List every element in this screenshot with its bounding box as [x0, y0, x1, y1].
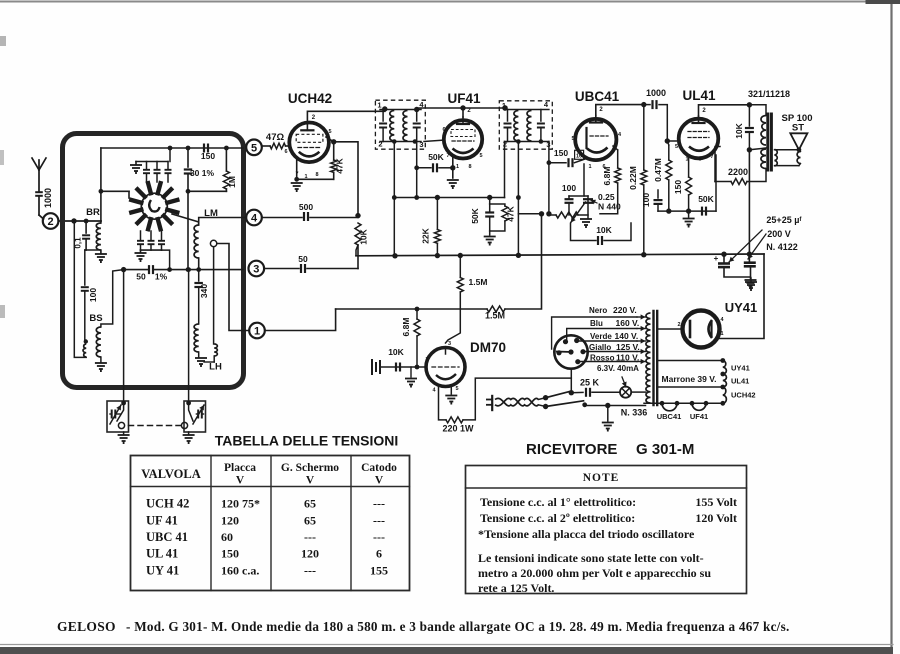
ground DM70 grid [410, 367, 412, 377]
switch lever left [118, 422, 124, 428]
IF1 trimmer left [382, 110, 384, 122]
capacitor 50K AVC ladder [487, 195, 492, 200]
svg-text:- Mod. G 301- M. Onde medie da: - Mod. G 301- M. Onde medie da 180 a 580… [126, 619, 790, 634]
table header line [131, 486, 410, 488]
wire IF2 pin2 to bus corner [504, 142, 506, 198]
svg-text:UY 41: UY 41 [146, 564, 179, 578]
svg-text:1.5M: 1.5M [485, 311, 505, 321]
ground mains [607, 406, 609, 422]
resistor 1.5M vertical [459, 256, 461, 278]
wafer switch rotor [167, 210, 177, 213]
svg-text:G. Schermo: G. Schermo [281, 462, 339, 474]
svg-text:5: 5 [328, 129, 331, 135]
filament winding UL41 [723, 374, 727, 387]
cathode line UL41 [658, 210, 716, 212]
svg-text:BR: BR [86, 207, 100, 218]
svg-text:1: 1 [377, 101, 381, 110]
svg-text:Marrone 39 V.: Marrone 39 V. [662, 374, 717, 384]
svg-text:22K: 22K [421, 227, 431, 243]
DM70 cathode ground [450, 385, 452, 394]
svg-text:GELOSO: GELOSO [57, 619, 116, 634]
wire inner top rail [101, 147, 243, 149]
svg-text:10: 10 [576, 154, 582, 160]
svg-text:UCH42: UCH42 [731, 391, 756, 400]
resistor 0.22M [641, 102, 646, 107]
resistor 2200 screen [698, 161, 700, 172]
IF2 bottom wire [505, 141, 549, 143]
DM70 grid line [381, 366, 426, 368]
svg-text:RICEVITORE: RICEVITORE [526, 441, 617, 458]
filament bottom line [644, 402, 723, 404]
svg-text:UL41: UL41 [731, 377, 749, 386]
svg-text:155: 155 [370, 564, 388, 578]
pot right end wire [578, 214, 588, 216]
svg-text:Blu: Blu [590, 319, 603, 328]
svg-text:120 Volt: 120 Volt [695, 511, 737, 525]
wire UY41 cathode to B+ [718, 254, 764, 339]
wire UCH42 anode to IF1 [307, 109, 384, 124]
svg-text:65: 65 [304, 514, 316, 528]
UBC41 pin box 10 [575, 150, 584, 159]
coil BS top wire [101, 270, 124, 327]
svg-text:0.22M: 0.22M [628, 166, 638, 190]
svg-text:6.3V. 40mA: 6.3V. 40mA [597, 364, 639, 373]
note header line [466, 487, 747, 489]
svg-text:Giallo: Giallo [589, 343, 611, 352]
svg-text:6: 6 [442, 127, 445, 133]
svg-text:5: 5 [455, 386, 458, 392]
svg-text:4: 4 [432, 388, 436, 394]
wire UCH42 triode grid [331, 139, 336, 144]
svg-text:0.47M: 0.47M [653, 158, 663, 182]
svg-text:UF41: UF41 [690, 412, 708, 421]
capacitor 50K UL41 cathode [702, 207, 706, 216]
mains switch pole 1 [538, 398, 545, 405]
svg-text:140 V.: 140 V. [615, 331, 639, 341]
capacitor 340 [198, 270, 200, 281]
svg-text:7: 7 [425, 357, 428, 363]
svg-text:V: V [306, 475, 315, 487]
svg-text:---: --- [304, 564, 316, 578]
node 3 [248, 261, 264, 277]
coil LH [194, 324, 199, 352]
main B minus bus [356, 254, 764, 256]
coil LH link small [214, 344, 217, 356]
capacitor 0.25 N440 [587, 196, 589, 218]
svg-text:BS: BS [89, 313, 102, 324]
wire UL41 anode to output transformer [699, 105, 750, 116]
capacitor 500 [262, 217, 302, 219]
svg-text:7: 7 [704, 345, 707, 351]
svg-text:5: 5 [571, 136, 574, 142]
tube UF41 [444, 120, 482, 158]
UL41 plate bar [693, 122, 705, 124]
capacitor 10K wiper [571, 224, 597, 241]
ground below left trimmer [123, 432, 125, 434]
trimmer capacitor box right [184, 401, 206, 432]
wire node 2 into box [59, 220, 102, 222]
svg-text:160 V.: 160 V. [616, 318, 640, 328]
antenna [32, 158, 39, 191]
svg-text:7: 7 [710, 154, 713, 160]
UCH42 grid dashed box [296, 134, 323, 142]
svg-text:metro a 20.000 ohm per Volt e: metro a 20.000 ohm per Volt e apparecchi… [478, 566, 711, 580]
wire link coil riser [213, 247, 215, 344]
scan artifact: left edge marks [0, 36, 6, 46]
capacitor trio above switch [146, 162, 148, 170]
IF transformer 1 dashed box [375, 100, 425, 149]
scan artifact: top edge line [0, 1, 893, 3]
svg-text:47K: 47K [335, 157, 345, 173]
wire UF41 grid to IF1 [424, 140, 445, 142]
svg-text:Verde: Verde [590, 332, 612, 341]
resistor 6.8M UBC41 diode [617, 150, 619, 168]
wire UBC41 anode riser [596, 105, 644, 116]
svg-text:47Ω: 47Ω [266, 132, 285, 143]
wire B+ riser [748, 150, 750, 254]
node 4 [246, 210, 262, 226]
wire inner mid rail [101, 190, 129, 192]
svg-text:60: 60 [221, 530, 233, 544]
svg-text:6.8M: 6.8M [602, 167, 612, 186]
electrolytic 25+25 first [723, 254, 725, 262]
svg-text:1: 1 [456, 164, 459, 170]
wire node4 into box [199, 218, 247, 226]
svg-text:rete a 125 Volt.: rete a 125 Volt. [478, 581, 554, 595]
ground UF41 cathode [447, 180, 459, 189]
wire BR bottom [86, 250, 101, 253]
svg-text:321/11218: 321/11218 [748, 89, 790, 99]
svg-text:500: 500 [299, 202, 313, 212]
wire to DM70 anode [446, 292, 461, 343]
speaker cone [790, 133, 807, 150]
HT filament winding wires [657, 360, 723, 362]
ground top right of UY41 [750, 280, 752, 282]
UBC41 cathode arc [587, 148, 608, 153]
capacitor 10K DM70 grid [396, 363, 400, 372]
ground UCH42 cathode [291, 183, 303, 192]
IF1 primary coil [390, 111, 394, 142]
wire 10K to node3 line [357, 245, 359, 269]
filament winding UBC41 [662, 403, 677, 411]
output transformer secondary [775, 150, 778, 167]
resistor 1M [225, 148, 227, 171]
terminal small circle [210, 240, 216, 246]
svg-text:Le tensioni indicate sono stat: Le tensioni indicate sono state lette co… [478, 551, 704, 565]
wire BR top riser [100, 148, 102, 221]
svg-text:Placca: Placca [224, 462, 256, 474]
svg-text:Tensione c.c. al 1° elettr: Tensione c.c. al 1° elettrolitico: [480, 495, 636, 509]
voltage selector plug [554, 335, 587, 368]
svg-text:5: 5 [251, 142, 257, 154]
resistor 220 1W [439, 385, 447, 420]
IF2 secondary coil [527, 111, 531, 142]
svg-text:UL 41: UL 41 [146, 547, 178, 561]
wire caps above switch [136, 161, 168, 163]
voltage table frame [131, 456, 410, 591]
svg-text:UCH 42: UCH 42 [146, 497, 189, 511]
svg-text:6: 6 [376, 547, 382, 561]
ground below 50K [489, 231, 491, 235]
ground UL41 cathode [688, 211, 690, 217]
electrolytic 25+25 second [748, 254, 750, 262]
IF2 top wire [505, 109, 549, 111]
pickup terminal [371, 360, 373, 374]
resistor 47K UCH42 [333, 142, 335, 160]
scan artifact: top right corner mark [868, 0, 900, 4]
svg-text:3: 3 [448, 341, 451, 347]
output transformer tap [747, 147, 752, 152]
svg-text:100: 100 [88, 288, 98, 302]
svg-text:N. 336: N. 336 [621, 408, 648, 418]
wire UF41 cathode to ground [452, 158, 454, 178]
svg-text:100: 100 [641, 193, 651, 207]
svg-text:8: 8 [468, 164, 471, 170]
svg-text:2: 2 [599, 107, 603, 113]
wire bus left end [356, 245, 358, 256]
resistor 22K [435, 195, 440, 200]
wire antenna to node 2 [38, 197, 40, 215]
selector pins [563, 339, 568, 344]
resistor 47K AVC ladder [490, 204, 505, 206]
capacitor 100 UL41 [657, 190, 659, 198]
svg-text:N. 4122: N. 4122 [766, 242, 798, 252]
svg-text:UL41: UL41 [682, 88, 716, 103]
capacitor antenna series [35, 192, 43, 196]
grid return bus [394, 197, 504, 199]
svg-text:2: 2 [702, 108, 706, 114]
capacitor 50 node3 [264, 268, 299, 270]
svg-text:340: 340 [199, 284, 209, 298]
UCH42 cathode arc [299, 152, 320, 157]
svg-text:7: 7 [446, 153, 449, 159]
svg-text:UCH42: UCH42 [288, 91, 332, 106]
tube UY41 [683, 311, 720, 348]
wire caps trio riser to rail [169, 148, 171, 162]
svg-text:155 Volt: 155 Volt [695, 495, 737, 509]
svg-text:2: 2 [467, 108, 471, 114]
note box frame [466, 466, 747, 594]
svg-text:2: 2 [677, 322, 680, 328]
wire UL41 grid [665, 138, 670, 143]
node 5 [246, 140, 262, 156]
selector center wire down [570, 368, 572, 392]
svg-text:+: + [714, 254, 719, 263]
svg-text:LH: LH [209, 362, 222, 373]
wire trimmer feed left [123, 270, 125, 402]
wire cathode to ground [297, 178, 334, 180]
svg-text:V: V [236, 475, 245, 487]
wire below switch caps [141, 249, 162, 251]
svg-text:6: 6 [284, 149, 287, 155]
wire lamp to transformer [632, 391, 645, 393]
svg-text:G 301-M: G 301-M [636, 441, 694, 458]
svg-text:8: 8 [315, 172, 318, 178]
svg-text:125 V.: 125 V. [616, 342, 640, 352]
svg-text:150: 150 [673, 180, 683, 194]
svg-text:3: 3 [253, 264, 259, 276]
svg-text:25+25 µᶠ: 25+25 µᶠ [766, 215, 802, 225]
svg-text:---: --- [373, 514, 385, 528]
svg-text:5: 5 [479, 153, 482, 159]
resistor 150 UL41 [686, 177, 692, 195]
capacitor 10K output [747, 102, 752, 107]
trimmer capacitor left [112, 410, 116, 419]
volume pot line [518, 213, 541, 215]
coil box rounded border [63, 134, 244, 388]
output transformer primary [761, 116, 766, 146]
trimmer capacitor box left [107, 401, 129, 432]
filament winding UF41 [692, 403, 706, 410]
filament winding UY41 [723, 361, 727, 375]
wire trimmer feed right [188, 270, 190, 402]
resistor 1.5M horizontal [336, 308, 487, 310]
svg-text:1: 1 [588, 164, 591, 170]
resistor 10K oscillator [355, 223, 361, 245]
svg-text:150: 150 [221, 547, 239, 561]
pot wiper arrow [571, 202, 586, 223]
svg-text:UBC 41: UBC 41 [146, 530, 188, 544]
UL41 grid dashes [688, 131, 709, 133]
svg-text:1: 1 [720, 331, 723, 337]
svg-text:---: --- [373, 497, 385, 511]
scan artifact: bottom band [0, 647, 893, 654]
table column lines [210, 456, 212, 591]
svg-text:Catodo: Catodo [361, 462, 397, 474]
filament winding UCH42 [723, 387, 727, 403]
UF41 grid dashes [451, 130, 475, 137]
ground below switch caps [140, 250, 142, 252]
svg-text:2: 2 [312, 115, 316, 121]
svg-text:UY41: UY41 [731, 364, 750, 373]
svg-text:V: V [375, 475, 384, 487]
DM70 internal dashes [432, 366, 459, 368]
UF41 cathode arc [453, 149, 474, 154]
svg-text:220 V.: 220 V. [613, 305, 637, 315]
speaker voice coil loop [775, 149, 799, 151]
ground below BR [95, 254, 107, 263]
capacitor 50K UF41 grid [417, 167, 431, 169]
svg-text:10K: 10K [359, 228, 369, 244]
capacitor trio below switch [140, 231, 142, 240]
tube UL41 [679, 119, 719, 159]
IF1 top wire [380, 109, 421, 111]
svg-text:NOTE: NOTE [583, 472, 620, 484]
volume potentiometer [556, 212, 578, 218]
svg-text:4: 4 [720, 317, 724, 323]
UY41 anode bracket [709, 320, 713, 338]
svg-text:DM70: DM70 [470, 340, 506, 355]
wire below caps to node3 line [162, 250, 170, 270]
ground below LH [198, 352, 200, 357]
wire UY41 plate to transformer [657, 328, 683, 330]
svg-text:10K: 10K [388, 347, 404, 357]
ground below right trimmer [188, 432, 190, 434]
svg-text:VALVOLA: VALVOLA [141, 467, 201, 481]
DM70 plate stub [445, 348, 447, 355]
IF1 trimmer right [416, 110, 418, 122]
svg-text:UY41: UY41 [725, 300, 758, 315]
capacitor 150 top [204, 144, 208, 153]
wire IF1 pin4 to B+ line [416, 108, 418, 110]
tube UCH42 [289, 123, 329, 163]
resistor 0.47M [667, 141, 669, 150]
wire UCH42 cathode [296, 160, 298, 179]
svg-text:30 1%: 30 1% [190, 168, 215, 178]
svg-text:50K: 50K [470, 207, 480, 223]
capacitor 25K mains [571, 391, 583, 393]
svg-text:UF 41: UF 41 [146, 514, 178, 528]
svg-text:TABELLA DELLE TENSIONI: TABELLA DELLE TENSIONI [215, 433, 399, 449]
mains plug [491, 396, 493, 410]
capacitor 30 1% [187, 148, 189, 167]
IF2 primary coil [514, 111, 518, 142]
svg-text:47K: 47K [506, 205, 516, 221]
UCH42 grid dashes [298, 147, 320, 149]
wire UF41 anode [462, 108, 464, 117]
svg-text:65: 65 [304, 497, 316, 511]
resistor 6.8M DM70 [415, 307, 420, 312]
arrows to electrolytics [729, 230, 762, 262]
DM70 cathode arc [436, 374, 456, 379]
svg-text:0.25: 0.25 [598, 192, 615, 202]
UBC41 grid leak riser [583, 164, 585, 196]
trimmer capacitor right [198, 410, 202, 419]
IF transformer 2 dashed box [499, 101, 552, 149]
svg-text:2200: 2200 [728, 167, 748, 177]
capacitor 50 1% [124, 269, 148, 271]
svg-text:200 V: 200 V [767, 229, 791, 239]
ground below BS [100, 357, 102, 362]
capacitor 1000 [644, 104, 650, 106]
svg-text:1M: 1M [227, 176, 237, 188]
svg-text:150: 150 [554, 148, 568, 158]
svg-text:120: 120 [221, 514, 239, 528]
svg-text:*Tensione alla placca del tri: *Tensione alla placca del triodo oscilla… [478, 527, 695, 541]
svg-text:100: 100 [562, 183, 576, 193]
UY41 cathode bar [689, 321, 692, 337]
svg-text:Nero: Nero [589, 306, 607, 315]
svg-text:Tensione c.c. al 2º elettr: Tensione c.c. al 2º elettrolitico: [480, 511, 635, 525]
UCH42 plate bar [301, 129, 313, 131]
svg-text:6.8M: 6.8M [401, 318, 411, 337]
wire 6.8M to pot line corner [600, 183, 618, 214]
output transformer core [766, 114, 769, 170]
wire IF1 pin3 down [416, 142, 418, 198]
line AVC node1 [265, 309, 336, 331]
capacitor 100 left [84, 250, 86, 285]
arrow 6.3V to lamp [622, 377, 626, 387]
ground above switch caps [135, 162, 137, 165]
svg-text:UBC41: UBC41 [575, 89, 620, 104]
svg-text:UBC41: UBC41 [657, 412, 682, 421]
UL41 screen wire [714, 147, 716, 182]
svg-text:---: --- [304, 530, 316, 544]
svg-text:10K: 10K [596, 225, 612, 235]
UBC41 cathode bar [585, 128, 587, 148]
capacitor 0,1 [85, 221, 87, 233]
svg-text:50: 50 [298, 254, 308, 264]
scan artifact: right edge line [890, 0, 892, 648]
svg-text:UF41: UF41 [447, 91, 481, 106]
UF41 plate bar [457, 123, 469, 125]
svg-text:5: 5 [675, 144, 678, 150]
wire IF1 pin2 down to bus [393, 142, 395, 257]
pilot lamp [620, 387, 631, 398]
wire cathode riser right [715, 155, 717, 211]
power transformer core [652, 311, 654, 405]
svg-text:1%: 1% [155, 272, 168, 282]
